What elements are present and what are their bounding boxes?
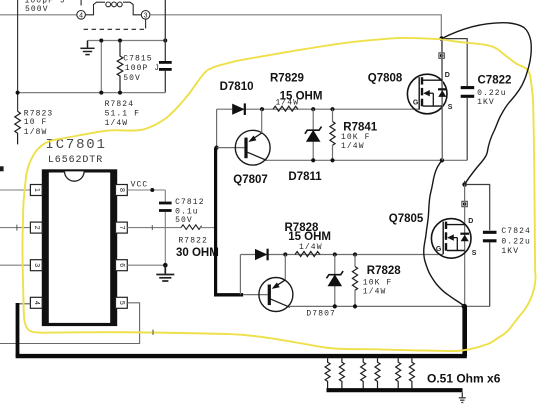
thick wire pin4 drop bbox=[16, 303, 20, 356]
wire upper shield row y=40.5 bbox=[88, 40, 166, 42]
label R7841 10K F 1/4W bbox=[341, 122, 378, 151]
svg-text:8: 8 bbox=[118, 188, 125, 192]
freehand black curve top node to Q7805 drain bbox=[442, 23, 532, 185]
svg-text:4: 4 bbox=[33, 301, 40, 305]
svg-text:C7824: C7824 bbox=[501, 227, 531, 236]
junction at (120,40.5) bbox=[118, 39, 122, 43]
pin 2 bbox=[30, 222, 42, 233]
svg-text:C7815: C7815 bbox=[123, 54, 153, 63]
zener diode D7807 bbox=[327, 255, 344, 307]
wire upper gate row y=109.2 bbox=[217, 108, 420, 110]
resistor bank R (0.51 ohm) 3 bbox=[361, 358, 366, 390]
test point marker (Q7805 drain) bbox=[462, 201, 467, 206]
junction VCC dot bbox=[150, 188, 154, 192]
junction at (101.3,92.6) bbox=[99, 91, 103, 95]
transformer winding lead tick above pin 4 bbox=[80, 0, 82, 6]
ground (bottom right) bbox=[459, 392, 466, 402]
wire pin2 row bbox=[0, 227, 30, 229]
svg-text:1/4W: 1/4W bbox=[341, 142, 365, 151]
svg-text:500V: 500V bbox=[25, 5, 49, 14]
resistor R7841 bbox=[330, 109, 335, 160]
node Q7805 drain junction bbox=[462, 182, 467, 187]
resistor R7823 bbox=[15, 111, 21, 144]
svg-text:2: 2 bbox=[33, 226, 40, 230]
junction R7828 bottom bbox=[353, 304, 357, 308]
transistor Q7805 (MOSFET) bbox=[431, 185, 471, 307]
resistor R7824 bbox=[117, 41, 123, 93]
svg-text:51.1 F: 51.1 F bbox=[105, 110, 140, 119]
node Q7808 drain junction bbox=[439, 36, 444, 41]
svg-text:15 OHM: 15 OHM bbox=[288, 231, 331, 243]
junction zener D7807 top bbox=[333, 252, 337, 256]
resistor R7822 bbox=[181, 225, 201, 230]
svg-text:Q7805: Q7805 bbox=[389, 213, 424, 225]
wire vertical branch x=17.6 bbox=[17, 0, 19, 111]
freehand black curve upper rail to bottom node bbox=[424, 160, 465, 306]
IC notch bbox=[65, 171, 85, 181]
junction zener D7811 top bbox=[311, 107, 315, 111]
svg-text:30 OHM: 30 OHM bbox=[176, 247, 219, 259]
transformer T1 winding bbox=[85, 2, 141, 15]
node terminal 4 (transformer pin) bbox=[77, 11, 86, 20]
pin 1 bbox=[30, 185, 42, 196]
wire lower gate row y=254.5 bbox=[240, 254, 443, 256]
svg-text:3: 3 bbox=[33, 263, 40, 267]
junction D7807 bottom bbox=[333, 304, 337, 308]
svg-text:D7807: D7807 bbox=[306, 310, 336, 319]
svg-text:G: G bbox=[413, 100, 419, 107]
svg-text:VCC: VCC bbox=[131, 180, 149, 189]
wire lower row y=92.6 bbox=[18, 92, 166, 94]
svg-text:10K F: 10K F bbox=[363, 278, 393, 287]
wire upper source rail y=160.3 bbox=[267, 159, 468, 161]
svg-text:D7811: D7811 bbox=[288, 171, 322, 183]
value label C7815 100P J 50V bbox=[123, 54, 160, 83]
svg-text:O.51 Ohm x6: O.51 Ohm x6 bbox=[427, 372, 501, 386]
svg-text:50V: 50V bbox=[123, 74, 141, 83]
transformer core dashed line bbox=[84, 28, 147, 30]
svg-text:R7822: R7822 bbox=[178, 237, 208, 246]
svg-text:L6562DTR: L6562DTR bbox=[48, 155, 103, 166]
ground (top-left) bbox=[80, 41, 94, 55]
junction lower source node bbox=[462, 304, 467, 309]
left edge component stub mark bbox=[0, 166, 4, 171]
resistor R7828 (10K) bbox=[352, 255, 357, 307]
thick gate bus vertical bbox=[214, 148, 217, 295]
svg-text:G: G bbox=[436, 246, 442, 253]
svg-text:1/4W: 1/4W bbox=[363, 288, 387, 297]
svg-text:D: D bbox=[445, 72, 450, 79]
capacitor C7822 bbox=[461, 88, 475, 161]
wire pin7 row bbox=[127, 227, 181, 229]
svg-text:1/4W: 1/4W bbox=[299, 243, 323, 252]
svg-text:R7829: R7829 bbox=[270, 72, 304, 84]
svg-text:D: D bbox=[468, 218, 473, 225]
svg-text:1KV: 1KV bbox=[501, 247, 519, 256]
svg-text:Q7808: Q7808 bbox=[368, 72, 403, 84]
svg-text:D7810: D7810 bbox=[220, 81, 254, 93]
wire pin5 to lower-left loop bbox=[0, 303, 140, 344]
svg-text:C7812: C7812 bbox=[175, 198, 205, 207]
junction Q7807 base node bbox=[215, 146, 219, 150]
pin 6 bbox=[116, 260, 128, 271]
resistor bank R (0.51 ohm) 4 bbox=[375, 358, 380, 390]
wire C7822 top branch bbox=[442, 39, 468, 86]
value label R7824 51.1 F 1/4W bbox=[105, 100, 140, 128]
resistor R7828 (15 ohm) bbox=[295, 252, 320, 257]
tick on pin2 wire bbox=[16, 225, 18, 231]
wire C7824 top branch bbox=[465, 185, 490, 231]
svg-text:0.22u: 0.22u bbox=[501, 238, 531, 247]
label R7828 10K F 1/4W bbox=[363, 265, 401, 297]
svg-text:R7828: R7828 bbox=[367, 265, 401, 277]
junction at (17.6,92.6) bbox=[16, 91, 20, 95]
value label 100pF J 500V bbox=[25, 0, 66, 14]
transistor Q7807 bbox=[217, 109, 271, 165]
node terminal 3 (transformer pin) bbox=[141, 11, 150, 20]
transformer winding lead tick below pin 3 bbox=[145, 19, 147, 28]
thick bus bottom horizontal bbox=[16, 354, 467, 358]
svg-text:1: 1 bbox=[33, 188, 40, 192]
pin 3 bbox=[30, 260, 42, 271]
wire pin8 to VCC node bbox=[127, 189, 165, 191]
svg-text:R7824: R7824 bbox=[105, 100, 135, 109]
svg-text:4: 4 bbox=[79, 12, 83, 19]
junction pin6/C7812 bbox=[163, 263, 168, 268]
wire riser lower diode anode bbox=[239, 255, 241, 295]
yellow tick mark bbox=[152, 330, 154, 336]
junction R7828 10K top bbox=[353, 252, 357, 256]
wire riser upper diode anode bbox=[216, 109, 218, 147]
thick gate bus horizontal stub bbox=[214, 293, 243, 296]
tick on pin7 wire bbox=[151, 225, 153, 230]
svg-text:Q7807: Q7807 bbox=[233, 174, 268, 186]
wire AC input horizontal left bbox=[0, 14, 77, 16]
svg-text:S: S bbox=[448, 104, 453, 111]
svg-text:50V: 50V bbox=[175, 216, 193, 225]
zener diode D7811 bbox=[305, 109, 322, 160]
diode D7810 bbox=[232, 103, 245, 115]
svg-text:3: 3 bbox=[144, 12, 148, 19]
label R7829 15 OHM bbox=[270, 72, 322, 102]
capacitor C7812 bbox=[159, 190, 172, 265]
test point marker (Q7808 drain) bbox=[439, 53, 444, 58]
junction R7841 bottom bbox=[330, 158, 334, 162]
svg-text:1KV: 1KV bbox=[477, 98, 495, 107]
resistor bank R (0.51 ohm) 6 bbox=[409, 358, 414, 390]
value label C7812 0.1u 50V bbox=[175, 198, 205, 225]
pin 8 bbox=[116, 185, 128, 196]
op-amp U1 IC7801 body bbox=[43, 171, 115, 325]
pin 5 bbox=[116, 297, 128, 308]
capacitor C7824 bbox=[483, 232, 497, 306]
pin 4 bbox=[30, 297, 42, 308]
svg-text:R7841: R7841 bbox=[343, 122, 377, 134]
resistor bank R (0.51 ohm) 1 bbox=[325, 358, 330, 390]
svg-text:10 F: 10 F bbox=[24, 118, 48, 127]
IC label IC7801 L6562DTR bbox=[46, 137, 107, 166]
thick wire Q7805 source drop bbox=[462, 306, 467, 356]
svg-text:10K F: 10K F bbox=[341, 133, 371, 142]
label C7822 0.22u 1KV bbox=[477, 75, 511, 107]
wire vertical x=101.3 bbox=[100, 41, 102, 93]
resistor bank R (0.51 ohm) 2 bbox=[339, 358, 344, 390]
value label R7823 10 F 1/8W bbox=[24, 110, 54, 137]
label R7828 15 OHM bbox=[285, 222, 332, 243]
junction D7811 bottom bbox=[311, 158, 315, 162]
svg-text:C7822: C7822 bbox=[478, 75, 512, 87]
capacitor C7815 bbox=[159, 0, 172, 93]
yellow highlighter loop bbox=[22, 38, 535, 351]
resistor bank R (0.51 ohm) 5 bbox=[396, 358, 401, 390]
wire lower source rail y=306.4 bbox=[290, 305, 490, 307]
junction at (120,92.6) bbox=[118, 91, 122, 95]
diode D7808 (lower) bbox=[255, 249, 268, 261]
pin 7 bbox=[116, 222, 128, 233]
svg-text:0.22u: 0.22u bbox=[477, 89, 507, 98]
junction at (165.3,40.5) bbox=[163, 39, 167, 43]
wire pin6 row bbox=[127, 264, 165, 266]
wire Q7805 drain stub bbox=[464, 181, 466, 185]
transistor Q7806 (lower driver) bbox=[243, 255, 293, 312]
wire R7822 to gate bus bbox=[200, 227, 215, 229]
svg-text:1/8W: 1/8W bbox=[24, 128, 48, 137]
svg-text:100P J: 100P J bbox=[125, 64, 160, 73]
wire pin4 stub bbox=[18, 303, 31, 305]
value label C7824 0.22u 1KV bbox=[501, 227, 531, 256]
resistor R7829 bbox=[273, 106, 298, 111]
svg-text:S: S bbox=[472, 250, 477, 257]
svg-text:1/4W: 1/4W bbox=[276, 99, 300, 108]
svg-text:7: 7 bbox=[118, 226, 125, 230]
junction lower emitter riser bbox=[283, 252, 287, 256]
ground (under C7812) bbox=[156, 265, 174, 281]
junction R7841 top bbox=[330, 107, 334, 111]
svg-text:1/4W: 1/4W bbox=[105, 119, 129, 128]
transistor Q7808 (MOSFET) bbox=[407, 39, 447, 161]
svg-text:6: 6 bbox=[118, 263, 125, 267]
junction Q7808 source bbox=[440, 158, 444, 162]
svg-text:5: 5 bbox=[118, 301, 125, 305]
wire pin3 row bbox=[0, 264, 30, 266]
wire from pin 3 to upper-right node bbox=[150, 15, 441, 39]
wire pin1 row bbox=[0, 189, 30, 191]
thick bottom sense bar bbox=[327, 388, 463, 392]
junction at (101.3,40.5) bbox=[99, 39, 103, 43]
junction upper emitter riser bbox=[260, 107, 264, 111]
